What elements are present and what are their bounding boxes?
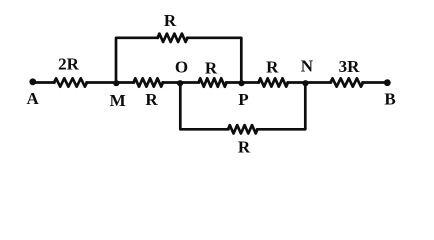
wire R(P-N) to N to resistor 3R (288, 81, 332, 84)
svg-text:O: O (175, 58, 188, 77)
svg-text:2R: 2R (58, 54, 80, 73)
svg-text:R: R (164, 11, 177, 30)
svg-text:R: R (238, 138, 251, 157)
svg-text:R: R (145, 90, 158, 109)
svg-text:M: M (110, 91, 126, 110)
wire R(M-O) to O to resistor R(O-P) (163, 81, 200, 84)
resistor R (O-P) (199, 78, 227, 86)
node P (238, 80, 244, 86)
node M (113, 80, 119, 86)
wire M up and top-left lead (116, 38, 158, 83)
svg-text:A: A (27, 89, 40, 108)
wire A to 2R (33, 81, 55, 84)
wire top-right lead and down to P (187, 38, 241, 83)
svg-text:P: P (238, 90, 248, 109)
terminal A dot (29, 78, 36, 85)
wire 3R to B (363, 81, 388, 84)
resistor 2R (54, 78, 87, 86)
wire bottom-right lead and up to N (257, 83, 305, 129)
resistor R (P-N) (259, 78, 289, 86)
resistor 3R (331, 78, 364, 86)
node N (302, 80, 308, 86)
wire R(O-P) to P to resistor R(P-N) (226, 81, 259, 84)
terminal B dot (384, 79, 391, 86)
svg-text:R: R (266, 58, 279, 77)
wire O down and bottom-left lead (180, 83, 228, 129)
svg-text:N: N (301, 57, 314, 76)
node O (177, 80, 183, 86)
resistor R (bottom branch O-N) (228, 125, 258, 133)
svg-text:B: B (384, 90, 395, 109)
wire 2R to M to resistor R(M-O) (87, 81, 135, 84)
svg-text:3R: 3R (339, 57, 361, 76)
svg-text:R: R (205, 58, 218, 77)
resistor R (M-O) (134, 78, 164, 86)
resistor R (top branch M-P) (158, 34, 188, 42)
